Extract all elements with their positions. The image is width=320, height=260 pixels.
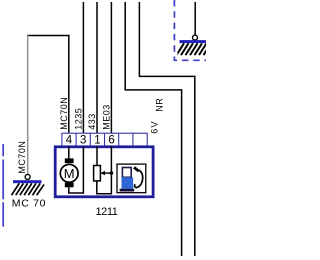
svg-text:1211: 1211 [95, 206, 117, 218]
wire pin1 to resistor [96, 146, 98, 166]
wire resistor bottom loop [97, 181, 112, 194]
wire motor bottom loop [69, 187, 84, 193]
svg-text:NR: NR [154, 98, 164, 112]
component box 1211 (fuel pump/gauge unit) [55, 147, 153, 197]
motor brush bottom [65, 183, 74, 188]
wire MC70N horizontal top segment [27, 35, 69, 37]
ground hatching top-right [177, 43, 212, 55]
motor M1 circle [60, 164, 78, 182]
wire MC70N vertical from pin 4 up [68, 35, 70, 134]
ground MC70 bar [13, 180, 42, 183]
fuel pump nozzle [134, 167, 139, 171]
svg-text:M: M [64, 166, 75, 181]
svg-text:3: 3 [80, 135, 86, 147]
wiper arrow line [103, 172, 111, 174]
svg-text:1: 1 [94, 135, 100, 147]
svg-text:6: 6 [108, 135, 114, 147]
svg-text:433: 433 [87, 113, 97, 130]
ground MC70 hatching [12, 183, 45, 195]
wire ME03 [110, 2, 112, 134]
resistor (level sender) [94, 166, 101, 181]
motor brush top [65, 158, 74, 163]
fuel pump body [122, 177, 134, 188]
fuel pump base [120, 189, 135, 192]
fuel pump hose [135, 170, 143, 188]
wire pin6 down [110, 146, 112, 195]
dashed enclosure top-right [174, 0, 206, 60]
dashed boundary line bottom-left [2, 144, 4, 227]
wire 433 [96, 2, 98, 134]
ground terminal circle MC70 [25, 174, 30, 179]
fuel pump icon frame [117, 164, 146, 193]
svg-text:1235: 1235 [73, 108, 83, 130]
junction dot [110, 171, 114, 175]
ground terminal circle top-right [193, 35, 198, 40]
fuel pump window [122, 168, 131, 178]
wire pin3 down [82, 146, 84, 194]
wiper arrowhead [100, 171, 105, 175]
svg-text:4: 4 [66, 135, 73, 147]
wire inside: pin4 to motor [68, 146, 70, 159]
connector pin row [62, 133, 147, 146]
svg-text:MC70N: MC70N [17, 141, 27, 174]
ground bar top-right [180, 40, 207, 43]
svg-text:MC70N: MC70N [59, 97, 69, 130]
wire 6V NR staircase 1 [125, 2, 181, 256]
wire to ground MC70 (gray) [27, 35, 29, 174]
wire 1235 [82, 2, 84, 134]
wire to ground top-right [194, 2, 196, 35]
svg-text:MC 70: MC 70 [12, 198, 46, 210]
wire staircase 2 [139, 2, 194, 256]
svg-text:ME03: ME03 [101, 104, 111, 130]
svg-text:6V: 6V [150, 120, 160, 134]
